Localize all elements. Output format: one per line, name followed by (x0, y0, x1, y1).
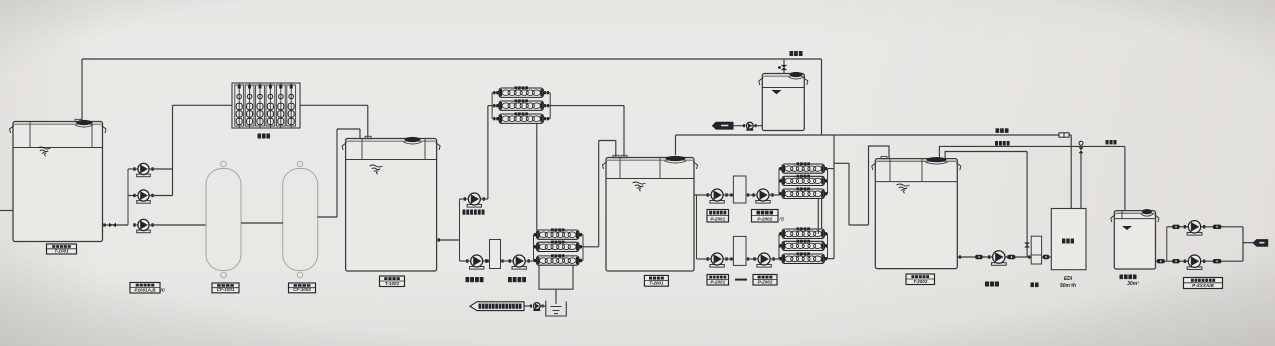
water level symbol (370, 165, 383, 174)
svg-text:EDI: EDI (1064, 276, 1073, 282)
wire EDI product drop to EDI unit (1080, 153, 1082, 209)
UF module 5 (276, 83, 285, 128)
tank T-2001 1st RO water tank (603, 155, 698, 271)
label CF-1001 (212, 283, 239, 293)
filter vessel CF-1002 (283, 169, 318, 271)
wire CF-1001 to CF-1002 (241, 222, 283, 224)
svg-text:P-2001: P-2001 (710, 279, 725, 284)
svg-text:P-2002: P-2002 (757, 216, 772, 221)
cartridge filter 2nd pass B (733, 236, 746, 265)
wire EDI concentrate return drop (675, 135, 677, 155)
RO bank 1 frame (491, 93, 493, 119)
pump P-1001B raw water pump (133, 190, 153, 203)
valve before pump A (1172, 225, 1180, 229)
RO bank 4 frame (778, 234, 780, 259)
dash between labels (735, 279, 747, 281)
pump 2nd RO feed pump A (707, 189, 728, 203)
wire UF product header (300, 104, 368, 106)
label RO-2 HP pump (508, 277, 526, 282)
wire RO-2 product drop to tank (615, 141, 617, 160)
label UF unit (258, 134, 271, 139)
wire pump to cartridge filter (483, 260, 490, 262)
water symbol in EDI tank (1122, 226, 1132, 230)
label 2nd RO pump B (707, 275, 729, 286)
wire drain to dosing tank (555, 289, 557, 304)
wire bank4 manifold tie (778, 258, 780, 260)
water level symbol (633, 182, 646, 191)
wire EDI feed pump suction (957, 256, 992, 258)
wire pump A discharge (1201, 226, 1243, 228)
UF module 3 (256, 83, 265, 128)
valve before pump B (1172, 259, 1180, 263)
wire drop to raw water tank (81, 59, 83, 123)
RO bank 2 vessel 2 (537, 241, 580, 252)
UF module 6 (287, 83, 296, 128)
wire EDI recirculation line (945, 152, 1027, 159)
svg-text:T-2002: T-2002 (913, 279, 928, 284)
cartridge filter before EDI (1031, 236, 1041, 264)
pump 2nd RO HP pump A (752, 189, 773, 203)
wire filter A to HP pump A (746, 194, 758, 196)
label flag NaHSO3 dosing unit 2004 (470, 302, 524, 311)
filter vessel CF-1001 (206, 169, 241, 271)
wire EDI product header (1081, 145, 1125, 147)
wire dosing flag to metering pump (524, 305, 532, 307)
wire 2nd RO pump B suction (697, 258, 712, 260)
wire 2nd RO product to tank (849, 224, 869, 226)
wire distribution pump A suction (1167, 226, 1188, 228)
RO bank 4 vessel 1 (782, 227, 824, 238)
wire P-1001B discharge (149, 195, 173, 197)
valve on raw water tank outlet (109, 223, 116, 228)
wire discharge manifold (1242, 227, 1244, 261)
wire UF feed header (173, 104, 233, 106)
label concentrate recycle text (995, 141, 1010, 146)
label 1st RO tank (644, 275, 668, 286)
label EDI unit text inside (1062, 239, 1074, 244)
wire CIP drop to concentrate header (821, 59, 823, 135)
label EDI feed pump (985, 282, 999, 287)
RO bank 2 vessel 1 (537, 228, 580, 239)
wire EDI tank outlet (1156, 260, 1167, 262)
label RO booster pump (463, 210, 485, 215)
valve with actuator at EDI product tee (1079, 147, 1084, 153)
water symbol in RO clean tank (772, 90, 782, 94)
wire 2nd RO product inlet frame (869, 146, 890, 225)
svg-text:T-1002: T-1002 (385, 281, 400, 286)
wire distribution manifold (1166, 227, 1168, 261)
svg-text:P-2002: P-2002 (758, 279, 773, 284)
pump RO-2 high pressure pump (509, 255, 530, 269)
RO bank 2 frame (533, 235, 535, 261)
label distribution pumps (1184, 278, 1223, 289)
valve after pump A (1213, 225, 1222, 229)
wire pump B discharge (1201, 260, 1243, 262)
valve before EDI (1043, 255, 1050, 259)
wire RO-2 drain collection frame (539, 266, 573, 290)
RO bank 3 frame (778, 169, 780, 194)
wire to use point (1243, 242, 1254, 244)
wire RO-2 product (583, 246, 599, 248)
RO bank 1 vessel 3 (499, 112, 543, 123)
RO bank 1 vessel 2 (499, 99, 543, 110)
wire interstage line B (821, 194, 823, 229)
wire filter B to HP pump B (746, 258, 759, 260)
RO bank 4 vessel 2 (782, 240, 824, 251)
tank T-2002 2nd RO water tank (872, 156, 961, 268)
UF module 4 (266, 83, 275, 128)
valve on EDI recirculation (1024, 243, 1030, 248)
wire 2nd RO pump A suction (694, 194, 711, 196)
wire product header tie (834, 162, 849, 164)
wire 2nd RO product riser (848, 163, 850, 225)
label EDI tank name (1120, 275, 1137, 280)
svg-text:50m³/h: 50m³/h (1060, 283, 1076, 289)
pump CIP pump (743, 122, 757, 130)
wire pump P-1001A suction (128, 168, 137, 170)
svg-text:P-2001: P-2001 (710, 216, 725, 221)
wire metering pump to chemical tank (540, 305, 546, 307)
label 2nd RO tank (906, 274, 935, 285)
pump 2nd RO HP pump B (754, 253, 775, 267)
wire concentrate recycle to tank (939, 146, 1081, 158)
pump dosing metering pump (530, 303, 544, 311)
UF module 1 (235, 83, 244, 128)
label to EDI tank text (1106, 140, 1117, 144)
pump EDI feed pump (988, 251, 1010, 266)
chemical dissolving tank (546, 301, 567, 317)
pump 2nd RO feed pump B (707, 253, 728, 267)
wire EDI concentrate header (676, 134, 1072, 136)
valve on 2nd RO tank outlet (975, 255, 983, 259)
wire booster discharge (481, 198, 488, 200)
pump distribution pump B (1184, 255, 1206, 269)
svg-text:/B: /B (779, 217, 785, 223)
svg-text:P1001A,B: P1001A,B (134, 287, 156, 292)
tank EDI water tank (1111, 209, 1159, 269)
wire bank3 product tie (828, 168, 835, 170)
wire tank outlet to pump manifold (103, 224, 128, 226)
wire RO-1 feed riser (487, 106, 489, 199)
wire filter to EDI unit (1042, 256, 1052, 258)
wire interstage line A (817, 199, 819, 234)
wire CIP distribution riser (833, 135, 835, 259)
svg-text:T-2001: T-2001 (649, 281, 664, 286)
RO bank 3 vessel 1 (782, 162, 824, 173)
pump P-1001C raw water pump (133, 219, 153, 232)
wire drop to EDI water tank (1124, 146, 1126, 212)
tank T-1002 UF water tank (342, 136, 440, 271)
wire bank4 product tie (828, 258, 835, 260)
wire UF product drop to UF tank (367, 105, 369, 139)
label RO water text (790, 51, 803, 56)
water level symbol (38, 147, 51, 156)
label 2nd RO HP pump A (752, 210, 779, 223)
valve on EDI concentrate header (1059, 133, 1069, 137)
RO bank 2 vessel 3 (537, 254, 580, 265)
wire riser to RO water tank (783, 59, 785, 74)
wire drop into UF tank lid (359, 129, 361, 140)
wire P-1001A discharge (149, 168, 173, 170)
wire HP pump to RO-2 bank (526, 260, 534, 262)
wire P-1001C discharge to CF-1001 (149, 224, 206, 226)
RO bank 1 vessel 1 (499, 86, 543, 97)
tank RO clean water tank (759, 72, 808, 131)
wire raw pump suction manifold (127, 169, 129, 225)
wire CF riser to UF tank (336, 129, 338, 217)
UF module 2 (245, 83, 254, 128)
wire cartridge filter to HP pump (501, 260, 514, 262)
label raw water pumps (130, 283, 160, 294)
wire pump to filter B (724, 258, 734, 260)
UF module rack frame (232, 83, 300, 128)
svg-text:P-XXXA/B: P-XXXA/B (1192, 283, 1214, 288)
wire HP pump A to RO bank 3 (770, 194, 780, 196)
svg-text:T-1001: T-1001 (54, 248, 69, 253)
svg-text:/C: /C (160, 288, 166, 293)
wire UF tank outlet (437, 239, 460, 241)
label 2nd RO HP pump B (753, 275, 777, 286)
svg-text:30m³: 30m³ (1127, 281, 1139, 287)
EDI unit (1051, 209, 1086, 270)
valve on EDI tank outlet (1157, 259, 1165, 263)
RO bank 3 vessel 3 (782, 187, 824, 198)
svg-text:CF-1002: CF-1002 (293, 287, 311, 292)
label EDI concentrate text (996, 128, 1009, 133)
wire pump to filter A (724, 194, 734, 196)
label UF tank (380, 276, 405, 287)
valve after pump B (1213, 259, 1222, 263)
label flag to UF backwash (713, 122, 734, 129)
wire UF feed riser (172, 105, 174, 195)
wire 2nd RO suction manifold (696, 195, 698, 259)
pump distribution pump A (1184, 221, 1206, 236)
wire CF outlet header (337, 128, 360, 130)
wire RO-2 product header (599, 140, 616, 142)
wire RO feed manifold (459, 199, 461, 261)
label CF-1002 (289, 283, 316, 293)
wire RO-1 product drop to tank T-2001 (623, 106, 625, 158)
wire main top line (82, 58, 822, 60)
wire EDI feed pump discharge (1006, 256, 1032, 258)
RO bank 4 vessel 3 (782, 252, 824, 263)
label security filter (1031, 283, 1039, 288)
label flag use point (1253, 240, 1268, 247)
wire RO-2 product riser (598, 141, 600, 247)
cartridge filter before RO-2 (490, 240, 501, 269)
wire RO feed pump suction (460, 260, 469, 262)
wire RO-1 product header (550, 105, 624, 107)
wire CF-1002 outlet (317, 216, 337, 218)
wire EDI recirculation drop (1026, 152, 1028, 258)
tank T-1001 raw water tank (10, 119, 107, 241)
RO bank 3 vessel 2 (782, 175, 824, 186)
valve after EDI feed pump (1008, 255, 1016, 259)
label 2nd RO pump A (707, 210, 729, 223)
pump P-1001A raw water pump (133, 163, 153, 176)
wire HP pump B to RO bank 4 (771, 258, 780, 260)
wire raw water inlet (0, 210, 13, 212)
label RO feed pump (466, 277, 484, 282)
svg-text:CF-1001: CF-1001 (217, 287, 235, 292)
wire bank3 manifold tie (778, 194, 780, 195)
valve on RO water tank riser (781, 65, 787, 70)
wire distribution pump B suction (1167, 260, 1188, 262)
wire pump P-1001B suction (128, 195, 137, 197)
wire CIP pump to tank (753, 125, 762, 127)
cartridge filter 2nd pass A (733, 176, 746, 203)
label raw water tank T-1001 (47, 244, 77, 254)
wire RO booster pump suction (460, 198, 468, 200)
pump 1st RO booster pump (464, 193, 485, 207)
pump RO feed pump (466, 255, 487, 269)
wire RO-1 feed tie (488, 105, 492, 107)
wire RO-1 concentrate to RO-2 feed (536, 123, 538, 230)
wire EDI concentrate riser (1070, 135, 1072, 209)
wire flag to CIP pump (733, 125, 746, 127)
water level symbol (897, 184, 910, 193)
